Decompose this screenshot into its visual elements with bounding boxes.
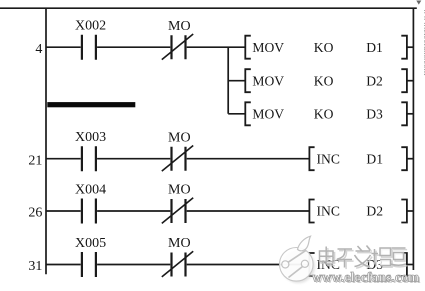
right power rail [412, 8, 414, 270]
wire rung31 rail to X005 [46, 264, 81, 266]
svg-text:4: 4 [35, 42, 42, 57]
redaction bar [47, 102, 135, 107]
wire MOV2 to right rail [407, 80, 414, 82]
svg-text:D2: D2 [366, 73, 383, 88]
watermark logo cord upper [288, 250, 307, 263]
watermark hanzi 3 [355, 246, 371, 267]
wire INC1 to right rail [407, 158, 414, 160]
contact X003 [82, 146, 96, 171]
svg-text:MO: MO [168, 19, 191, 34]
wire rung4 M0 to MOV1 [187, 46, 246, 48]
wire INC2 to right rail [407, 210, 414, 212]
svg-text:X005: X005 [75, 236, 106, 251]
svg-text:X003: X003 [75, 130, 106, 145]
svg-text:www.elecfans.com: www.elecfans.com [312, 269, 419, 284]
slash of NC contact M0 rung21 [162, 146, 193, 172]
watermark hanzi 1 [320, 247, 334, 265]
wire INC3 to right rail [407, 264, 414, 266]
slash of NC contact M0 rung31 [162, 251, 193, 277]
left bracket INC3 [309, 253, 314, 276]
left bracket MOV1 [245, 36, 251, 59]
right bracket MOV3 [401, 102, 407, 125]
svg-text:MOV: MOV [252, 73, 284, 88]
watermark hanzi shadow [321, 247, 408, 269]
wire rung26 rail to X004 [46, 210, 81, 212]
watermark logo cord lower [289, 266, 304, 278]
wire MOV1 to right rail [407, 46, 414, 48]
wire branch row3 [228, 113, 245, 115]
watermark logo plug circle left [282, 261, 289, 268]
svg-text:KO: KO [314, 106, 334, 121]
slash of NC contact M0 rung26 [162, 198, 193, 224]
wire rung21 M0 to INC [187, 158, 310, 160]
svg-text:26: 26 [28, 206, 42, 221]
watermark logo circle [280, 247, 314, 281]
contact X002 [82, 35, 96, 60]
svg-text:D2: D2 [366, 204, 383, 219]
svg-text:D3: D3 [366, 106, 383, 121]
contact M0 rung31 [172, 253, 186, 277]
contact M0 rung21 [172, 147, 186, 171]
top bus wire [0, 7, 417, 9]
wire rung31 M0 to INC [187, 264, 310, 266]
contact M0 rung4 [172, 35, 186, 59]
wire rung26 M0 to INC [187, 210, 310, 212]
left bracket MOV3 [245, 102, 251, 125]
contact X004 [82, 199, 96, 224]
svg-text:D1: D1 [366, 151, 383, 166]
svg-text:MOV: MOV [252, 40, 284, 55]
wire rung21 rail to X003 [46, 158, 81, 160]
wire branch row2 [228, 80, 245, 82]
svg-text:X002: X002 [75, 19, 106, 34]
watermark corner triangle [416, 1, 421, 5]
svg-text:KO: KO [314, 73, 334, 88]
svg-text:MOV: MOV [252, 106, 284, 121]
svg-text:MO: MO [168, 130, 191, 145]
contact X005 [82, 252, 96, 277]
wire rung21 X003 to M0 [97, 158, 170, 160]
wire MOV3 to right rail [407, 113, 414, 115]
svg-text:31: 31 [28, 259, 42, 274]
right bracket MOV1 [401, 36, 407, 59]
left bracket INC1 [309, 147, 314, 170]
left bracket MOV2 [245, 69, 251, 92]
wire rung26 X004 to M0 [97, 210, 170, 212]
wire rung31 X005 to M0 [97, 264, 170, 266]
right bracket MOV2 [401, 69, 407, 92]
right bracket INC2 [401, 200, 407, 223]
svg-text:MO: MO [168, 236, 191, 251]
svg-text:INC: INC [317, 204, 340, 219]
slash of NC contact M0 rung4 [162, 34, 193, 60]
left power rail [45, 8, 47, 274]
watermark logo plug circle right [301, 260, 308, 267]
watermark logo leaf [298, 236, 311, 251]
svg-text:D1: D1 [366, 40, 383, 55]
left bracket INC2 [309, 200, 314, 223]
right bracket INC1 [401, 147, 407, 170]
watermark hanzi 2 [337, 249, 353, 268]
branch vertical rung4 [227, 47, 229, 114]
svg-text:INC: INC [317, 151, 340, 166]
watermark hanzi 4 [372, 248, 391, 266]
right bracket INC3 [401, 253, 407, 276]
svg-text:KO: KO [314, 40, 334, 55]
svg-text:MO: MO [168, 183, 191, 198]
wire rung4 rail to X002 [46, 46, 81, 48]
watermark hanzi 5 [391, 248, 407, 265]
wire rung4 X002 to M0 [97, 46, 170, 48]
svg-text:X004: X004 [75, 182, 106, 197]
watermark logo shadow [282, 249, 316, 283]
svg-text:21: 21 [28, 153, 42, 168]
contact M0 rung26 [172, 199, 186, 223]
